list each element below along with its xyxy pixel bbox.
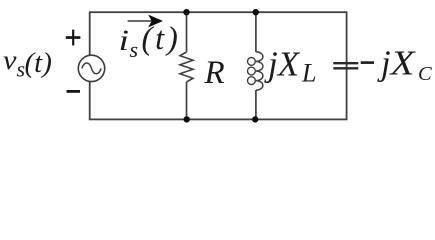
wire: inductor branch bottom xyxy=(255,90,257,119)
node dot top inductor xyxy=(253,9,259,15)
minus sign xyxy=(67,90,81,93)
svg-text:R: R xyxy=(204,55,225,91)
svg-text:j: j xyxy=(377,45,391,83)
svg-text:s: s xyxy=(130,37,139,62)
wire: resistor branch bottom xyxy=(186,82,188,119)
svg-text:v: v xyxy=(3,45,17,75)
label i_s(t) xyxy=(119,21,181,62)
wire: outer loop rectangle xyxy=(90,12,347,119)
wire: inductor branch top xyxy=(255,12,257,52)
svg-text:X: X xyxy=(388,44,416,83)
plus sign xyxy=(66,30,81,46)
svg-text:(t): (t) xyxy=(25,47,52,79)
capacitor C plates xyxy=(333,63,358,68)
svg-text:(t): (t) xyxy=(142,21,181,57)
label -jX_C minus stroke xyxy=(361,61,374,64)
label v_s(t) xyxy=(3,45,52,82)
inductor L coil xyxy=(248,52,263,90)
resistor R zigzag xyxy=(180,52,193,82)
svg-text:jX: jX xyxy=(264,45,301,84)
node dot top resistor xyxy=(183,9,189,15)
wire: resistor branch top xyxy=(186,12,188,52)
svg-text:C: C xyxy=(418,63,432,85)
svg-text:L: L xyxy=(301,59,316,88)
node dot bottom inductor xyxy=(252,116,258,122)
label jX_L xyxy=(264,45,316,88)
node dot bottom resistor xyxy=(184,116,190,122)
current arrow i_s xyxy=(128,15,163,28)
svg-text:i: i xyxy=(119,24,130,57)
voltage source VS circle xyxy=(78,55,104,81)
label -jX_C text xyxy=(377,44,432,85)
